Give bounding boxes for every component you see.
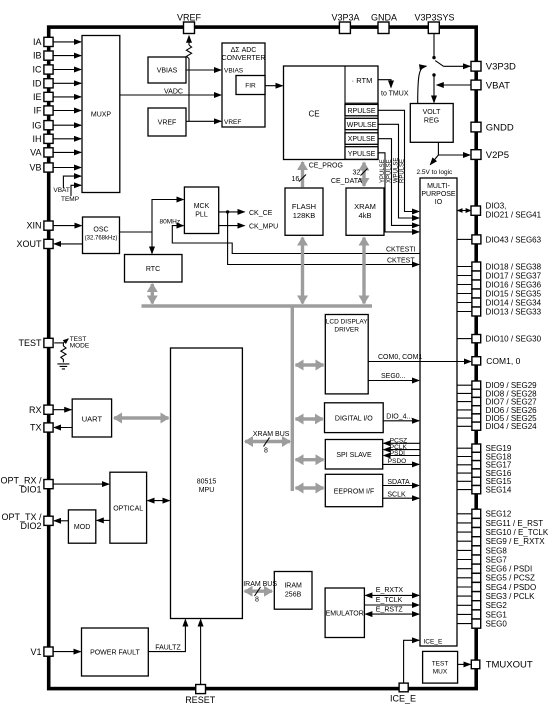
- block LCD DISPLAY DRIVER: [325, 315, 368, 394]
- block XPULSE: [345, 133, 378, 145]
- svg-text:FLASH: FLASH: [292, 202, 316, 211]
- grey arrow RTC to bus: [151, 284, 154, 304]
- svg-text:COM1, 0: COM1, 0: [486, 356, 520, 366]
- block SPI SLAVE: [325, 440, 382, 470]
- pin VA: [44, 148, 53, 157]
- svg-text:VB: VB: [29, 163, 41, 173]
- svg-text:32: 32: [353, 170, 361, 177]
- svg-text:XOUT: XOUT: [16, 239, 42, 249]
- svg-text:DIO_4...: DIO_4...: [386, 413, 412, 420]
- svg-text:SEG12: SEG12: [486, 510, 512, 519]
- wire VBAT into node: [437, 84, 471, 86]
- wire RTM to TMUX: [378, 80, 391, 88]
- pin group DIO18-DIO13: [472, 262, 481, 316]
- wire IE to MUXP: [53, 96, 81, 98]
- block FIR (inside ADC): [236, 76, 265, 95]
- svg-text:TEST: TEST: [432, 661, 449, 668]
- pin group SEG19-SEG14: [472, 444, 481, 494]
- wire DIO_4... DIGITAL IO to MPIO: [383, 420, 419, 422]
- svg-text:SEG6 / PSDI: SEG6 / PSDI: [486, 565, 533, 574]
- svg-text:TMUXOUT: TMUXOUT: [486, 660, 533, 671]
- wire YPULSE to MPIO: [378, 153, 419, 232]
- wire IA to MUXP: [53, 41, 81, 43]
- pin ID: [44, 79, 53, 88]
- wire E_RXTX emulator bidirectional: [365, 594, 419, 596]
- svg-text:YPULSE: YPULSE: [348, 151, 376, 158]
- wire COM0,COM1 LCD to COM pin: [368, 361, 471, 363]
- wire 2.5V to logic: [430, 155, 438, 165]
- svg-text:RESET: RESET: [185, 695, 216, 705]
- svg-text:RPULSE: RPULSE: [347, 108, 375, 115]
- wire stubs DIO18-DIO13 group: [457, 267, 472, 312]
- svg-text:VOLT: VOLT: [423, 109, 441, 116]
- svg-text:IB: IB: [33, 51, 42, 61]
- svg-text:8: 8: [255, 597, 259, 604]
- svg-text:V3P3A: V3P3A: [331, 13, 359, 23]
- grey arrow spine to DIGITAL IO: [296, 417, 323, 420]
- wire OSC to XOUT: [54, 243, 82, 245]
- pin VBAT: [471, 80, 481, 90]
- svg-text:SDATA: SDATA: [387, 479, 410, 486]
- labels SEG19-SEG14 group: [486, 444, 512, 494]
- wire PCLK to SPI SLAVE: [384, 449, 420, 451]
- wire IF to MUXP: [53, 110, 81, 112]
- grey arrow spine to EEPROM IF: [296, 486, 324, 489]
- svg-text:PLL: PLL: [195, 212, 208, 219]
- pin V3P3A: [339, 22, 350, 34]
- wire OSC output: [120, 231, 153, 233]
- grey arrow XRAM to bus: [362, 238, 365, 304]
- wire FIR to CE: [265, 85, 283, 87]
- svg-text:PURPOSE: PURPOSE: [421, 191, 456, 198]
- svg-text:VREF: VREF: [177, 13, 202, 23]
- svg-text:SEG7: SEG7: [486, 555, 508, 564]
- wire stubs DIO9-DIO4 group: [457, 385, 472, 426]
- arrow TEST MODE: [63, 339, 68, 343]
- grey arrow UART to MPU: [114, 416, 169, 419]
- svg-text:YPULSE: YPULSE: [380, 159, 386, 183]
- svg-text:SEG3 / PCLK: SEG3 / PCLK: [486, 592, 536, 601]
- wire OSC to RTC: [151, 232, 153, 254]
- labels DIO18-DIO13 group: [486, 262, 542, 316]
- svg-text:SCLK: SCLK: [387, 491, 406, 498]
- svg-text:EMULATOR: EMULATOR: [326, 611, 364, 618]
- svg-text:DIO10 / SEG30: DIO10 / SEG30: [486, 335, 542, 344]
- svg-text:POWER FAULT: POWER FAULT: [90, 650, 140, 657]
- svg-text:MODE: MODE: [70, 343, 90, 350]
- svg-text:80515: 80515: [197, 479, 217, 486]
- svg-text:IH: IH: [33, 134, 42, 144]
- pin IB: [44, 51, 53, 60]
- wire FAULTZ to MPU: [148, 620, 185, 652]
- CE internal divider: [344, 66, 346, 160]
- svg-text:XRAM BUS: XRAM BUS: [253, 431, 290, 438]
- wire VBIAS to ADC: [186, 69, 221, 71]
- wire VOLT REG to V2P5: [438, 142, 470, 155]
- junction dot CK_CE / CKTEST: [226, 210, 229, 213]
- block WPULSE: [345, 118, 378, 129]
- svg-text:TEMP: TEMP: [61, 196, 79, 203]
- svg-text:UART: UART: [82, 415, 103, 424]
- wire OPTICAL to MPU bidirectional: [148, 500, 170, 502]
- svg-text:256B: 256B: [285, 592, 302, 599]
- wire TEMP to MUXP: [71, 185, 81, 196]
- wire VB to MUXP: [53, 167, 81, 169]
- svg-text:VADC: VADC: [164, 89, 183, 96]
- svg-text:V2P5: V2P5: [486, 150, 509, 161]
- block MUXP: [82, 36, 120, 193]
- block VREF: [148, 108, 186, 136]
- block EMULATOR: [325, 588, 364, 638]
- svg-text:DIO17 / SEG37: DIO17 / SEG37: [486, 271, 542, 280]
- wire stubs SEG12-SEG0 group: [457, 514, 472, 624]
- svg-text:CE_DATA: CE_DATA: [331, 178, 363, 185]
- wire TEST MUX to TMUXOUT: [458, 663, 471, 665]
- grey arrow CE_DATA: [362, 163, 365, 187]
- svg-text:SPI SLAVE: SPI SLAVE: [336, 452, 372, 459]
- svg-text:DIO16 / SEG36: DIO16 / SEG36: [486, 280, 542, 289]
- wire stubs SEG19-SEG14 group: [457, 448, 472, 489]
- wire RPULSE to MPIO: [378, 110, 419, 211]
- pin IH: [44, 134, 53, 143]
- svg-text:DIO21 / SEG41: DIO21 / SEG41: [486, 211, 542, 220]
- block RPULSE: [345, 104, 378, 115]
- pin VREF top: [184, 22, 195, 34]
- svg-text:DIO2: DIO2: [20, 521, 41, 531]
- pin TX: [44, 423, 53, 432]
- svg-text:128KB: 128KB: [293, 211, 316, 220]
- svg-text:SEG10 / E_TCLK: SEG10 / E_TCLK: [486, 528, 549, 537]
- wire ICE_E pin to MPIO: [404, 640, 419, 683]
- wire VADC MUXP to ADC: [120, 94, 221, 96]
- svg-text:DIGITAL I/O: DIGITAL I/O: [335, 416, 373, 423]
- pin V3P3D: [471, 61, 481, 71]
- wire TEST pin: [54, 342, 63, 344]
- pin V2P5: [471, 150, 481, 160]
- svg-text:CE_PROG: CE_PROG: [309, 162, 343, 169]
- pin IC: [44, 65, 53, 74]
- wire node to VOLT REG: [433, 77, 435, 103]
- svg-text:OPTICAL: OPTICAL: [113, 506, 143, 513]
- pin OPT_RX/DIO1: [44, 480, 53, 489]
- ground symbol: [57, 364, 69, 369]
- block OPTICAL: [110, 472, 147, 543]
- svg-text:DIO1: DIO1: [20, 485, 41, 495]
- svg-text:MULTI-: MULTI-: [427, 183, 450, 190]
- svg-text:RX: RX: [29, 405, 42, 415]
- wire IC to MUXP: [53, 69, 81, 71]
- wire VREF net vertical: [188, 59, 190, 122]
- svg-text:ΔΣ ADC: ΔΣ ADC: [231, 47, 257, 54]
- svg-text:PSDO: PSDO: [388, 458, 406, 465]
- svg-text:DIO4 / SEG24: DIO4 / SEG24: [486, 422, 538, 431]
- svg-text:CKTEST: CKTEST: [387, 258, 415, 265]
- wire V3P3SYS down to switch: [433, 34, 435, 57]
- block 80515 MPU: [171, 348, 243, 619]
- svg-text:VREF: VREF: [224, 119, 241, 126]
- wire OPT_RX to OPTICAL: [53, 483, 109, 485]
- wire switch to V3P3D: [444, 65, 471, 67]
- grey arrow FLASH to bus: [301, 238, 304, 304]
- pin XOUT: [44, 239, 53, 248]
- svg-text:SEG9 / E_RXTX: SEG9 / E_RXTX: [486, 537, 546, 546]
- svg-text:SEG8: SEG8: [486, 546, 508, 555]
- svg-text:IRAM: IRAM: [284, 583, 302, 590]
- pin TEST: [44, 338, 53, 347]
- wire OPTICAL to MOD: [97, 519, 110, 521]
- switch control arrow from VOLT REG: [418, 66, 427, 103]
- svg-text:IF: IF: [34, 106, 43, 116]
- pin DIO43/SEG63: [472, 235, 481, 244]
- svg-text:EEPROM I/F: EEPROM I/F: [334, 489, 374, 496]
- svg-text:ICE_E: ICE_E: [390, 694, 416, 704]
- svg-text:VBAT: VBAT: [53, 187, 70, 194]
- wire VREF pin arrow up: [188, 36, 190, 45]
- svg-text:16: 16: [292, 176, 300, 183]
- block DIGITAL I/O: [325, 403, 384, 433]
- svg-text:CKTESTI: CKTESTI: [386, 247, 416, 254]
- block CE: [284, 66, 379, 160]
- block MULTI-PURPOSE IO: [420, 178, 457, 646]
- svg-text:WPULSE: WPULSE: [347, 122, 377, 129]
- wire VREF box to ADC: [186, 120, 221, 122]
- svg-text:IE: IE: [33, 92, 42, 102]
- svg-text:RTC: RTC: [146, 266, 160, 273]
- svg-text:FAULTZ: FAULTZ: [155, 644, 181, 651]
- block YPULSE: [345, 147, 378, 160]
- switch contact dot top: [432, 56, 435, 59]
- pin DIO10/SEG30: [472, 335, 481, 343]
- pin GNDA: [378, 22, 389, 34]
- wire CKTEST to MPIO: [228, 212, 419, 265]
- svg-text:VA: VA: [30, 148, 41, 158]
- svg-text:MUX: MUX: [433, 669, 448, 676]
- wire CKTESTI from MPIO to PLL 80MHz input: [172, 226, 420, 254]
- wire ID to MUXP: [53, 82, 81, 84]
- pin V1: [44, 647, 53, 656]
- svg-text:SEG1: SEG1: [486, 610, 508, 619]
- block XRAM 4kB: [346, 188, 384, 235]
- svg-text:IO: IO: [435, 199, 443, 206]
- svg-text:MOD: MOD: [74, 524, 90, 531]
- svg-text:SEG5 / PCSZ: SEG5 / PCSZ: [486, 574, 535, 583]
- block POWER FAULT: [82, 628, 149, 676]
- svg-text:TEST: TEST: [18, 338, 42, 348]
- svg-text:VBIAS: VBIAS: [157, 68, 178, 75]
- wire V1 to POWER FAULT: [53, 651, 80, 653]
- svg-text:MCK: MCK: [194, 203, 210, 210]
- svg-text:CK_MPU: CK_MPU: [249, 224, 278, 231]
- svg-text:V3P3D: V3P3D: [486, 62, 516, 73]
- svg-text:COM0, COM1: COM0, COM1: [378, 354, 422, 361]
- svg-text:MUXP: MUXP: [91, 112, 112, 119]
- resistor on VREF pin: [186, 45, 191, 58]
- pin group SEG12-SEG0: [472, 509, 481, 628]
- svg-text:E_RSTZ: E_RSTZ: [376, 606, 404, 613]
- svg-text:GNDA: GNDA: [371, 13, 397, 23]
- grey bus horizontal: [142, 304, 373, 307]
- block VOLT REG: [410, 104, 453, 143]
- wire CK_CE from PLL: [219, 211, 245, 213]
- wire VA to MUXP: [53, 151, 81, 153]
- pin IF: [44, 106, 53, 115]
- svg-text:XIN: XIN: [26, 221, 41, 231]
- svg-text:DIO14 / SEG34: DIO14 / SEG34: [486, 298, 542, 307]
- pin RESET: [196, 685, 206, 694]
- svg-text:DIO43 / SEG63: DIO43 / SEG63: [486, 235, 542, 244]
- pin COM1,0: [472, 357, 481, 365]
- RTM compartment bottom line: [345, 102, 378, 104]
- grey arrow XRAM BUS MPU to spine: [245, 440, 290, 443]
- grey arrow spine to SPI SLAVE: [296, 458, 324, 461]
- wire CK_MPU from PLL: [219, 225, 245, 227]
- wire IG to MUXP: [53, 124, 81, 126]
- pin IA: [44, 37, 53, 46]
- pin V3P3SYS: [428, 22, 439, 34]
- svg-text:DRIVER: DRIVER: [334, 327, 359, 334]
- pin GNDD: [471, 122, 481, 132]
- grey arrow IRAM BUS MPU to IRAM: [245, 590, 273, 593]
- wire UART to TX: [54, 427, 72, 429]
- pin IE: [44, 92, 53, 101]
- svg-text:DIO3,: DIO3,: [486, 202, 507, 211]
- svg-text:to TMUX: to TMUX: [381, 91, 409, 98]
- svg-text:REG: REG: [424, 118, 439, 125]
- svg-text:IC: IC: [33, 65, 43, 75]
- svg-text:SEG2: SEG2: [486, 601, 508, 610]
- svg-text:· RTM: · RTM: [352, 76, 373, 85]
- svg-text:E_RXTX: E_RXTX: [376, 587, 404, 594]
- svg-text:OSC: OSC: [93, 227, 108, 234]
- svg-text:IA: IA: [33, 37, 42, 47]
- block IRAM 256B: [274, 572, 312, 610]
- wire E_RSTZ bidirectional: [365, 613, 419, 615]
- block FLASH 128KB: [285, 188, 323, 235]
- svg-text:CE: CE: [308, 110, 319, 119]
- wire stub DIO10: [457, 338, 472, 340]
- svg-text:PSDI: PSDI: [390, 450, 405, 457]
- pin VB: [44, 163, 53, 172]
- svg-text:XPULSE: XPULSE: [348, 136, 376, 143]
- wire MPIO to DIO3 bidirectional: [458, 210, 471, 212]
- block MOD: [68, 510, 95, 543]
- svg-text:DIO13 / SEG33: DIO13 / SEG33: [486, 307, 542, 316]
- block EEPROM I/F: [325, 474, 382, 506]
- wire SDATA from EEPROM IF: [383, 485, 419, 487]
- svg-text:ICE_E: ICE_E: [424, 639, 443, 646]
- svg-text:SEG11 / E_RST: SEG11 / E_RST: [486, 519, 544, 528]
- svg-text:SEG0: SEG0: [486, 620, 508, 629]
- wire PSDI to SPI SLAVE: [384, 455, 420, 457]
- pin ICE_E: [399, 683, 408, 692]
- svg-text:FIR: FIR: [245, 83, 256, 90]
- wire VBAT sense to MUXP: [63, 176, 81, 188]
- wire MOD to OPT_TX: [54, 520, 68, 522]
- switch contact dot bottom: [432, 73, 435, 76]
- grey arrow spine to LCD: [296, 363, 324, 366]
- wire SCLK from EEPROM IF: [383, 497, 419, 499]
- grey arrow CE_PROG: [301, 162, 304, 188]
- svg-text:8: 8: [264, 448, 268, 455]
- chip outer border: [49, 27, 477, 689]
- grey bus spine vertical: [291, 305, 294, 492]
- wire IH to MUXP: [53, 138, 81, 140]
- svg-text:SEG4 / PSDO: SEG4 / PSDO: [486, 583, 537, 592]
- block TEST MUX: [423, 651, 458, 683]
- svg-text:V3P3SYS: V3P3SYS: [414, 13, 454, 23]
- svg-text:DIO18 / SEG38: DIO18 / SEG38: [486, 262, 542, 271]
- resistor on TEST pin: [61, 343, 66, 363]
- labels SEG12-SEG0 group: [486, 510, 549, 629]
- wire RX to UART: [53, 409, 71, 411]
- svg-text:80MHz: 80MHz: [160, 219, 181, 226]
- svg-text:(32.768kHz): (32.768kHz): [85, 236, 118, 242]
- svg-text:4kB: 4kB: [359, 211, 372, 220]
- block UART: [72, 399, 111, 437]
- switch blade: [435, 61, 443, 67]
- wire stub DIO43: [457, 238, 472, 240]
- pin group DIO9-DIO4: [472, 381, 481, 430]
- wire OSC to MCK PLL: [152, 200, 183, 233]
- wire RESET to MPU: [200, 620, 202, 685]
- svg-text:LCD DISPLAY: LCD DISPLAY: [326, 319, 368, 326]
- svg-text:2.5V to logic: 2.5V to logic: [417, 169, 454, 176]
- pin IG: [44, 121, 53, 130]
- pin XIN: [44, 221, 53, 230]
- block VBIAS: [148, 57, 186, 83]
- svg-text:XPULSE: XPULSE: [387, 159, 393, 183]
- svg-text:RPULSE: RPULSE: [400, 159, 406, 183]
- pin TMUXOUT: [471, 660, 480, 669]
- svg-text:CK_CE: CK_CE: [249, 210, 273, 217]
- svg-text:VBAT: VBAT: [486, 80, 510, 91]
- svg-text:TX: TX: [30, 423, 42, 433]
- block ADC converter U-ADC: [222, 43, 265, 127]
- svg-text:GNDD: GNDD: [486, 122, 514, 133]
- pin OPT_TX/DIO2: [44, 516, 53, 525]
- pin RX: [44, 405, 53, 414]
- svg-text:E_TCLK: E_TCLK: [376, 597, 403, 604]
- wire XPULSE to MPIO: [378, 139, 419, 226]
- svg-text:XRAM: XRAM: [354, 202, 376, 211]
- labels DIO9-DIO4 group: [486, 381, 538, 431]
- block RTC: [125, 255, 183, 283]
- pin DIO3/DIO21/SEG41: [471, 206, 481, 215]
- wire PCSZ to SPI SLAVE: [384, 442, 420, 444]
- wire E_TCLK to MPIO: [364, 604, 419, 606]
- wire PSDO from SPI SLAVE: [383, 463, 419, 465]
- svg-text:MPU: MPU: [199, 487, 215, 494]
- svg-text:IG: IG: [32, 120, 42, 130]
- wire XIN to OSC: [53, 225, 81, 227]
- block OSC: [83, 217, 120, 254]
- svg-text:DIO15 / SEG35: DIO15 / SEG35: [486, 289, 542, 298]
- svg-text:VBIAS: VBIAS: [224, 68, 244, 75]
- block MCK PLL: [184, 187, 218, 234]
- svg-text:CONVERTER: CONVERTER: [222, 55, 266, 62]
- wire WPULSE to MPIO: [378, 124, 419, 218]
- svg-text:SEG14: SEG14: [486, 486, 512, 495]
- svg-text:V1: V1: [30, 647, 41, 657]
- svg-text:SEG0...: SEG0...: [381, 373, 406, 380]
- wire SEG0... LCD to MPIO: [368, 380, 419, 382]
- svg-text:ID: ID: [33, 78, 43, 88]
- svg-text:VREF: VREF: [158, 120, 177, 127]
- wire IB to MUXP: [53, 55, 81, 57]
